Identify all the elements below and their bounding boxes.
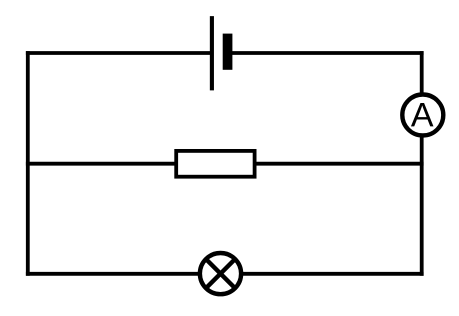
battery cell: long plate (positive terminal) xyxy=(210,16,214,90)
lamp L1: cross diagonal 1 xyxy=(206,259,235,288)
wire: top left segment to battery xyxy=(26,51,212,55)
battery cell: short thick plate (negative terminal) xyxy=(223,34,233,70)
wire: right vertical side xyxy=(420,51,424,276)
wire: left vertical side xyxy=(26,51,30,276)
lamp L1: cross diagonal 2 xyxy=(206,259,235,288)
lamp L1: circle body xyxy=(200,253,241,294)
resistor R1: rectangle body xyxy=(176,151,254,177)
wire: middle horizontal branch xyxy=(26,162,424,166)
wire: bottom horizontal branch xyxy=(26,272,424,276)
ammeter A1: letter A label xyxy=(411,103,434,126)
wire: top right segment from battery to corner xyxy=(228,51,424,55)
ammeter A1: circle body xyxy=(402,95,443,136)
